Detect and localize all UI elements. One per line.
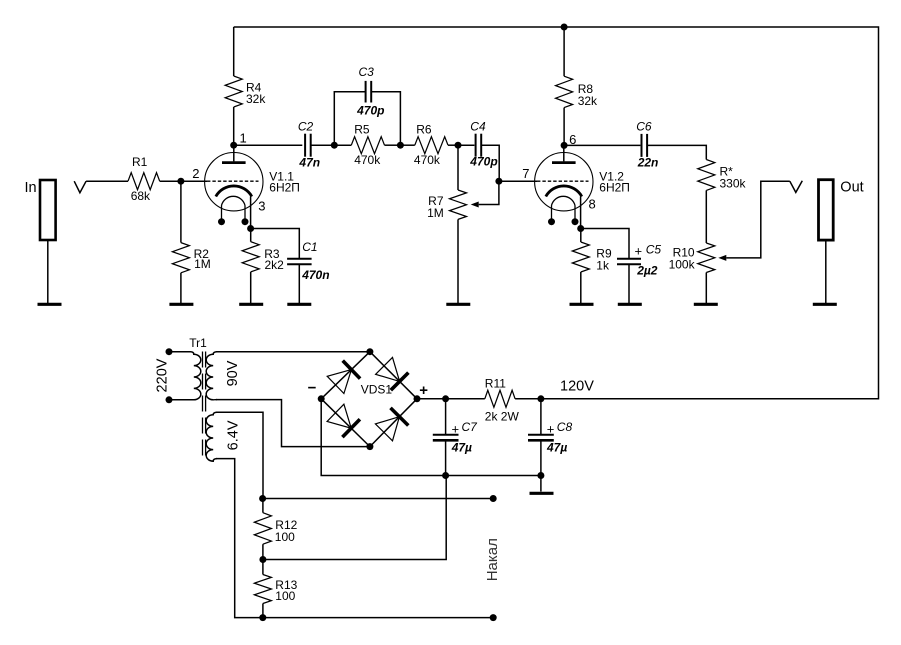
- svg-text:+: +: [452, 422, 460, 437]
- wire: [705, 273, 707, 305]
- node 8 junction: [577, 225, 584, 232]
- capacitor C2: [304, 134, 306, 157]
- svg-text:120V: 120V: [560, 379, 594, 395]
- svg-text:470n: 470n: [301, 268, 329, 282]
- Tr1 primary winding: [169, 352, 201, 400]
- Tr1 secondary 90V winding: [206, 352, 217, 400]
- capacitor C4: [475, 134, 477, 157]
- svg-text:8: 8: [589, 197, 596, 212]
- wire: [515, 398, 878, 400]
- node junction: [442, 472, 449, 479]
- connector break V (input): [74, 181, 86, 193]
- svg-text:R11: R11: [485, 377, 506, 391]
- svg-text:22n: 22n: [637, 156, 659, 170]
- ground: [169, 303, 193, 306]
- svg-text:1M: 1M: [194, 257, 211, 271]
- resistor R*: [698, 160, 715, 191]
- svg-text:2: 2: [192, 166, 199, 181]
- svg-text:2µ2: 2µ2: [636, 264, 658, 278]
- node junction: [455, 142, 462, 149]
- wire: [334, 144, 351, 146]
- svg-text:68k: 68k: [131, 189, 151, 203]
- wire B+ top rail: [234, 27, 879, 400]
- terminal dot: [490, 495, 497, 502]
- svg-text:C1: C1: [302, 240, 317, 254]
- node 1 junction: [230, 142, 237, 149]
- svg-text:C5: C5: [646, 243, 662, 257]
- resistor R6: [415, 137, 448, 154]
- input terminal In: [40, 180, 56, 240]
- wire: [457, 219, 459, 304]
- wire: [481, 145, 499, 181]
- wire: [458, 144, 474, 146]
- svg-text:32k: 32k: [246, 92, 266, 106]
- resistor R4: [225, 76, 242, 107]
- svg-text:2k 2W: 2k 2W: [485, 410, 520, 424]
- wire: [180, 181, 182, 242]
- resistor R11: [485, 390, 515, 407]
- wire: [86, 180, 128, 182]
- svg-text:C2: C2: [298, 120, 314, 134]
- bridge frame wires: [321, 352, 370, 399]
- node junction: [537, 472, 544, 479]
- wire: [581, 229, 629, 259]
- wire: [385, 144, 401, 146]
- svg-text:47µ: 47µ: [451, 441, 472, 455]
- svg-text:R1: R1: [132, 155, 148, 169]
- wire: [499, 180, 537, 182]
- svg-text:470p: 470p: [469, 155, 497, 169]
- node junction R12/R13: [259, 556, 266, 563]
- wire: [647, 145, 706, 159]
- wire: [445, 440, 447, 475]
- svg-text:6.4V: 6.4V: [226, 420, 242, 450]
- wire: [250, 272, 252, 304]
- diode VDS1d (bottom to right): [391, 408, 409, 426]
- wire: [311, 144, 335, 146]
- capacitor C1: [287, 258, 312, 260]
- Tr1 primary terminal dots: [166, 348, 173, 355]
- svg-text:In: In: [25, 180, 37, 196]
- svg-text:C7: C7: [462, 420, 479, 434]
- wire: [448, 144, 458, 146]
- wire plus rail: [417, 398, 485, 400]
- resistor R9: [580, 229, 582, 243]
- wire: [262, 604, 264, 618]
- svg-text:Out: Out: [840, 180, 863, 196]
- svg-text:+: +: [635, 244, 643, 259]
- wire 90V top: [216, 351, 370, 353]
- ground: [694, 303, 718, 306]
- node junction: [331, 142, 338, 149]
- resistor R13: [262, 560, 264, 575]
- svg-text:330k: 330k: [720, 177, 747, 191]
- svg-text:100: 100: [275, 530, 295, 544]
- node junction C7 top: [442, 395, 449, 402]
- ground: [287, 303, 311, 306]
- wire: [540, 440, 542, 475]
- svg-text:220V: 220V: [155, 358, 171, 392]
- svg-text:+: +: [419, 382, 428, 399]
- wire: [47, 240, 49, 304]
- wire: [400, 144, 414, 146]
- svg-text:470k: 470k: [414, 153, 441, 167]
- svg-text:C8: C8: [557, 420, 573, 434]
- svg-text:470k: 470k: [354, 153, 381, 167]
- node junction top rail: [561, 24, 568, 31]
- diode VDS1a (left to top): [343, 361, 360, 379]
- ground: [530, 492, 554, 495]
- svg-text:100k: 100k: [669, 257, 696, 271]
- wire: [180, 273, 182, 304]
- wire 6.4V bottom: [216, 459, 263, 618]
- svg-text:6Н2П: 6Н2П: [599, 181, 630, 195]
- diode VDS1c (left to bottom): [342, 419, 360, 437]
- resistor R8: [556, 76, 573, 107]
- svg-text:2k2: 2k2: [265, 258, 285, 272]
- wire 6.4V top: [216, 412, 263, 498]
- svg-text:C3: C3: [359, 65, 375, 79]
- wire: [564, 144, 640, 146]
- node junction: [397, 142, 404, 149]
- wire: [580, 272, 582, 304]
- wire: [825, 240, 827, 304]
- triode V1.1 6N2P: [205, 153, 263, 211]
- wire: [233, 107, 235, 145]
- node 3 junction: [247, 225, 254, 232]
- wire: [160, 180, 181, 182]
- svg-text:470p: 470p: [356, 103, 384, 117]
- wire: [445, 399, 447, 434]
- svg-text:47n: 47n: [298, 156, 320, 170]
- resistor R2: [172, 243, 189, 273]
- svg-text:Накал: Накал: [484, 538, 501, 581]
- wire: [705, 190, 707, 243]
- wire: [234, 144, 303, 146]
- wire: [563, 27, 565, 76]
- svg-text:1M: 1M: [427, 206, 444, 220]
- wire minus rail: [321, 399, 541, 476]
- ground: [618, 303, 642, 306]
- wire: [371, 92, 400, 146]
- wire: [181, 180, 207, 182]
- diode VDS1b (top to right): [391, 373, 409, 391]
- R7 wiper arrow: [471, 202, 479, 208]
- wire: [540, 476, 542, 492]
- resistor R3: [250, 229, 252, 242]
- capacitor C5 polarized: [617, 258, 641, 260]
- resistor R5: [351, 137, 384, 154]
- svg-text:R5: R5: [354, 123, 370, 137]
- svg-text:6Н2П: 6Н2П: [269, 181, 300, 195]
- wire: [298, 264, 300, 304]
- wire: [251, 229, 300, 259]
- bridge node dots: [366, 348, 373, 355]
- svg-text:1: 1: [240, 131, 247, 146]
- ground: [239, 303, 263, 306]
- svg-text:+: +: [547, 422, 555, 437]
- terminal dot: [490, 614, 497, 621]
- wire: [628, 264, 630, 304]
- svg-text:C6: C6: [636, 120, 652, 134]
- output terminal Out: [819, 180, 834, 240]
- ground: [813, 303, 837, 306]
- svg-text:R6: R6: [416, 123, 432, 137]
- wire: [540, 399, 542, 434]
- svg-text:7: 7: [522, 166, 529, 181]
- wire: [233, 27, 235, 76]
- resistor R12: [262, 499, 264, 513]
- resistor R1: [128, 173, 160, 190]
- Tr1 core: [202, 352, 204, 460]
- R10 wiper arrow: [718, 255, 726, 261]
- capacitor C6: [641, 134, 643, 157]
- node junction C8 top: [537, 395, 544, 402]
- svg-text:47µ: 47µ: [546, 441, 567, 455]
- svg-text:100: 100: [275, 589, 295, 603]
- wire 90V bottom: [216, 400, 370, 447]
- wire: [563, 108, 565, 146]
- svg-text:VDS1: VDS1: [361, 383, 393, 397]
- node junction heater A: [259, 495, 266, 502]
- ground: [570, 303, 594, 306]
- capacitor C3: [365, 81, 367, 103]
- svg-text:32k: 32k: [578, 94, 598, 108]
- node 6 junction: [561, 142, 568, 149]
- ground: [446, 303, 470, 306]
- ground: [38, 303, 62, 306]
- svg-text:−: −: [308, 380, 317, 397]
- svg-text:3: 3: [258, 199, 265, 214]
- connector break V (output): [790, 181, 803, 193]
- capacitor C7 polarized: [433, 434, 459, 436]
- wire heater line A: [263, 498, 494, 500]
- capacitor C8 polarized: [528, 434, 554, 436]
- wire: [262, 544, 264, 559]
- potentiometer R7: [450, 190, 467, 219]
- triode V1.2 6N2P: [535, 153, 593, 211]
- potentiometer R10: [698, 243, 715, 273]
- wire humdinger tap: [263, 476, 446, 560]
- svg-text:1k: 1k: [596, 259, 610, 273]
- wire: [457, 145, 459, 190]
- node junction heater B: [259, 614, 266, 621]
- svg-text:90V: 90V: [225, 360, 241, 386]
- node 2 junction: [177, 178, 184, 185]
- svg-text:C4: C4: [470, 120, 486, 134]
- Tr1 secondary 6.4V winding: [206, 412, 217, 461]
- wire: [334, 92, 365, 146]
- node 7 junction: [495, 178, 502, 185]
- svg-text:Tr1: Tr1: [189, 336, 207, 350]
- wire heater line B: [263, 617, 493, 619]
